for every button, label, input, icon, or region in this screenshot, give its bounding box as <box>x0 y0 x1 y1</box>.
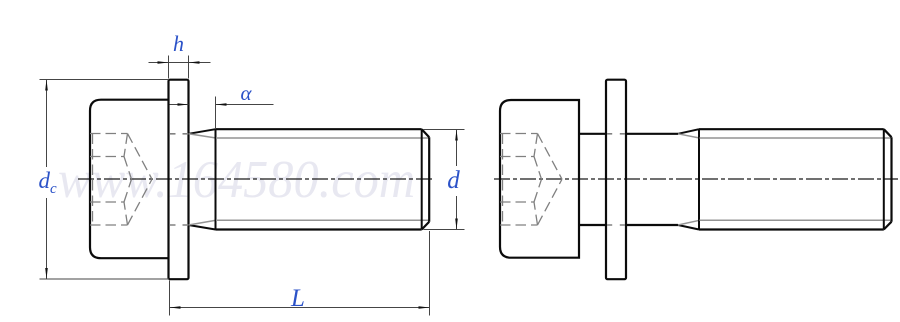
h extension lines <box>169 56 189 79</box>
h arrow right <box>189 61 200 64</box>
svg-text:c: c <box>50 181 57 197</box>
svg-text:L: L <box>290 285 305 312</box>
L extension lines <box>170 231 430 316</box>
d arrow top <box>455 130 458 141</box>
taper minor thin lines (left view) <box>189 134 217 225</box>
screw head (right view) <box>500 100 579 258</box>
svg-text:h: h <box>173 31 184 56</box>
dc dimension line <box>46 80 48 280</box>
d arrow bottom <box>455 219 458 230</box>
L arrow right <box>419 306 430 309</box>
thread start line (left view) <box>215 129 217 229</box>
end face (left view) <box>428 137 430 222</box>
hidden shank through washer (right view) <box>607 134 626 225</box>
washer (right view) <box>606 80 626 280</box>
dc arrow bottom <box>45 268 48 279</box>
d extension lines <box>423 130 465 230</box>
watermark www.164580.com <box>58 150 438 210</box>
L arrow left <box>170 306 181 309</box>
alpha dimension line right segment <box>216 104 274 106</box>
thread start line (right view) <box>698 129 700 229</box>
centerline (right view axis) <box>494 178 898 180</box>
svg-text:d: d <box>447 167 460 194</box>
taper minor thin lines (right view) <box>678 134 700 225</box>
hidden shank through washer (left view) <box>170 134 188 225</box>
thread minor diameter lines (left view) <box>216 138 429 220</box>
end chamfer (right view) <box>884 129 892 229</box>
washer (left view) <box>169 80 189 280</box>
screw head (left view) <box>90 100 169 259</box>
d dimension line <box>456 130 458 230</box>
chamfer start line (right view) <box>883 129 885 229</box>
centerline (left view axis) <box>78 178 433 180</box>
thread minor diameter lines (right view) <box>700 138 891 220</box>
thread run-out taper (right view) <box>678 129 699 229</box>
shank (right view) <box>579 134 605 225</box>
end face (right view) <box>890 137 892 222</box>
svg-text:α: α <box>240 81 252 105</box>
dc extension lines <box>40 80 170 280</box>
h dimension line <box>149 62 211 64</box>
svg-text:d: d <box>39 168 51 193</box>
hex socket hidden lines (right view) <box>500 134 562 226</box>
thread major diameter outline (left view) <box>216 129 422 229</box>
alpha arrow left <box>178 103 189 106</box>
h arrow left <box>158 61 169 64</box>
alpha extension line <box>215 97 217 130</box>
hex socket hidden lines (left view) <box>90 134 152 226</box>
end chamfer (left view) <box>422 129 430 229</box>
thread major diameter outline (right view) <box>699 129 884 229</box>
dc arrow top <box>45 80 48 91</box>
alpha dimension line left segment <box>170 104 189 106</box>
chamfer start line (left view) <box>421 129 423 229</box>
L dimension line <box>170 307 430 309</box>
thread run-out taper (left view) <box>189 129 216 229</box>
alpha arrow right <box>216 103 227 106</box>
